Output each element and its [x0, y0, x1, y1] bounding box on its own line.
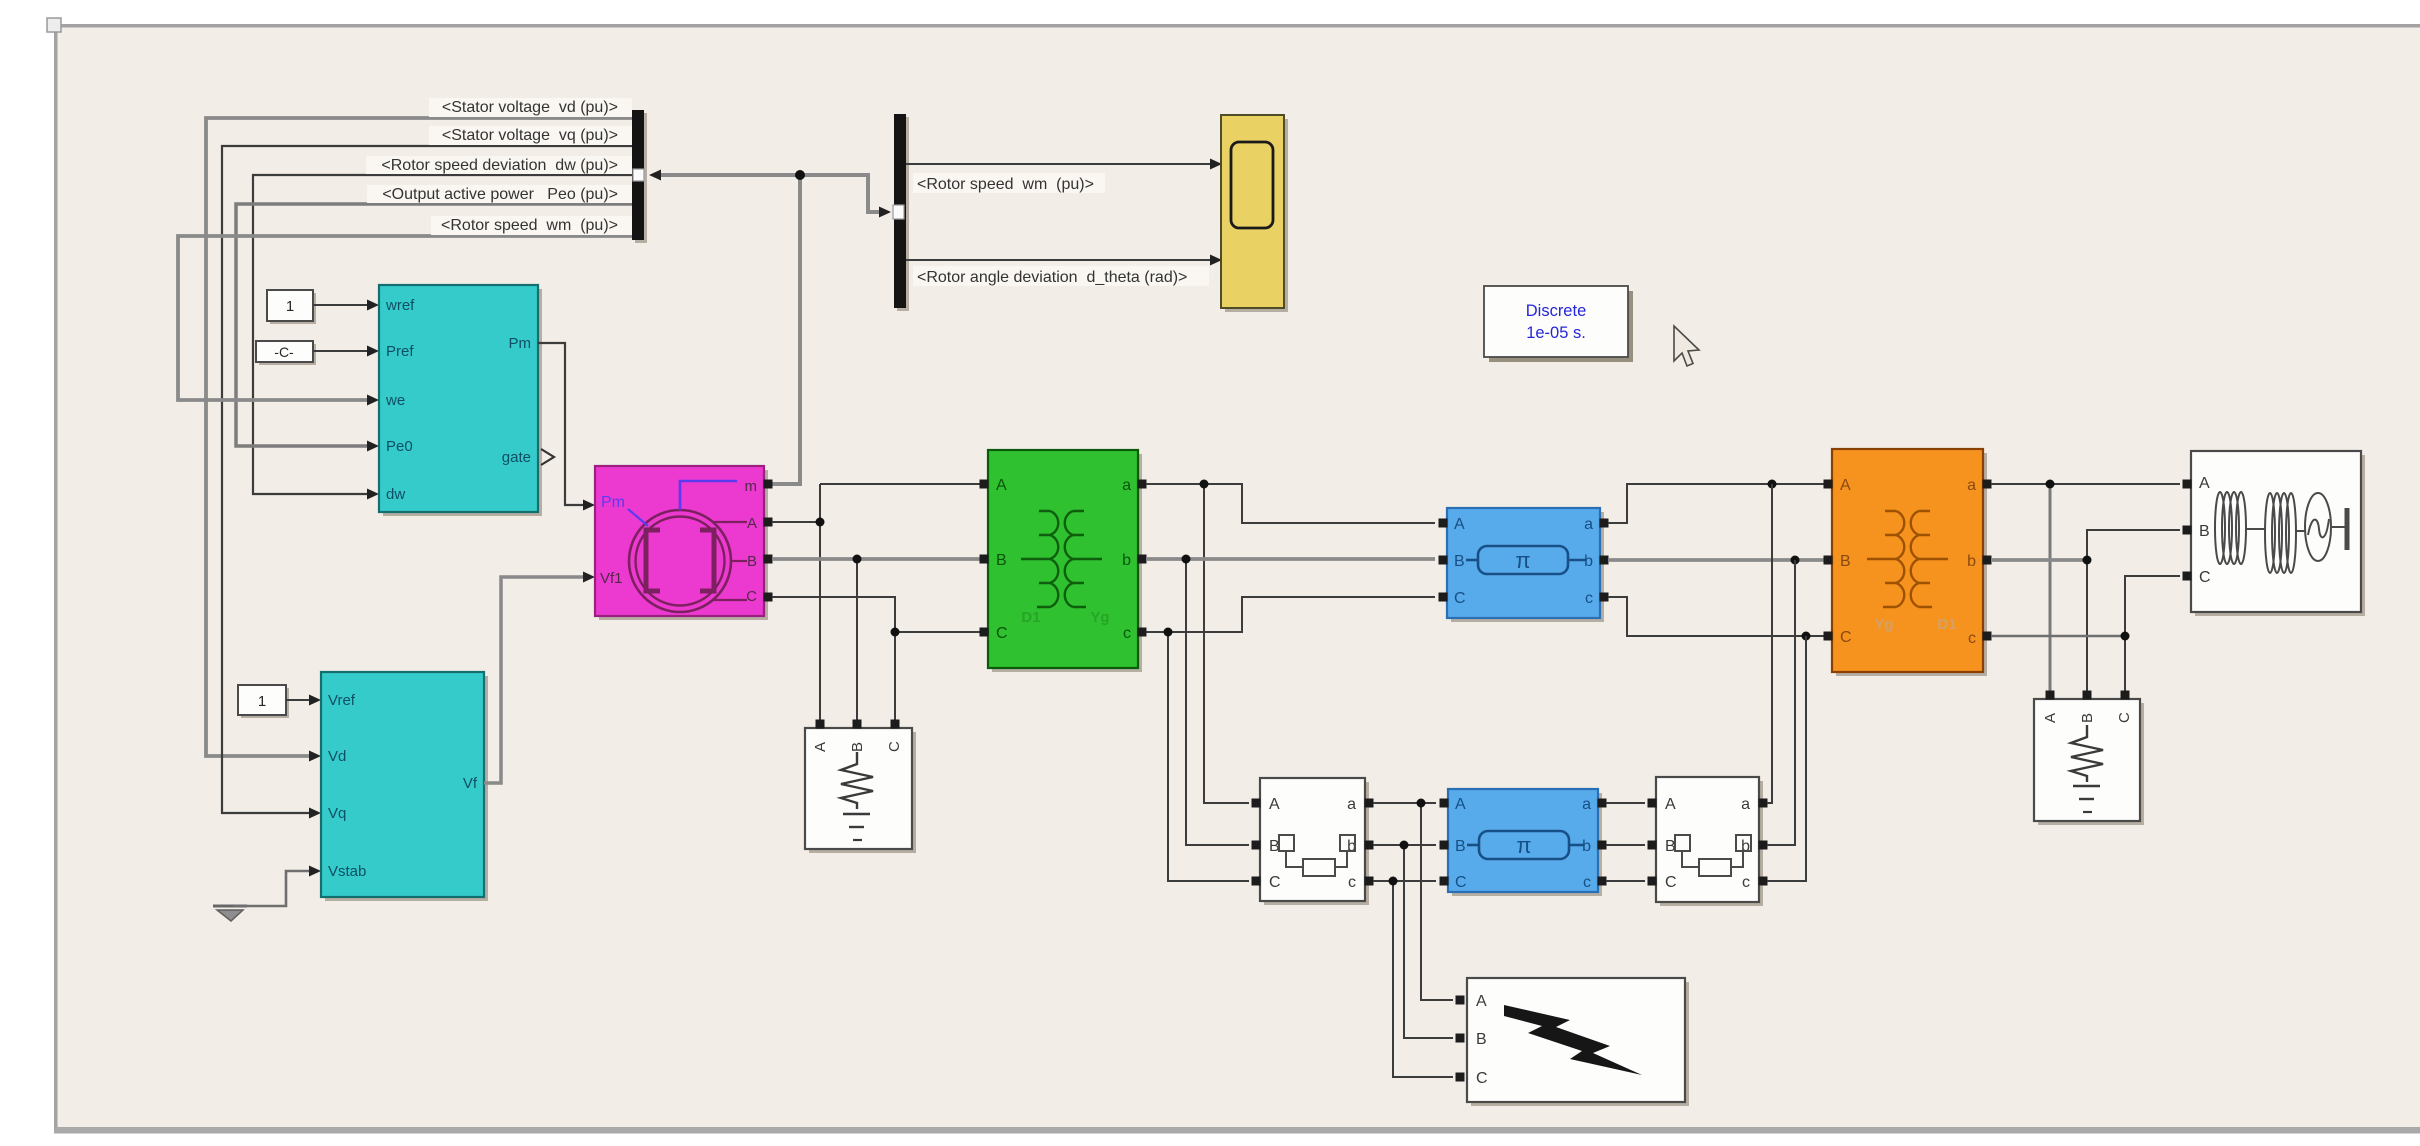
steam turbine and governor block [379, 285, 542, 516]
scope block [1221, 115, 1288, 312]
svg-text:π: π [1515, 548, 1530, 573]
three-phase fault block [1467, 978, 1689, 1106]
svg-text:C: C [1665, 874, 1677, 891]
three-phase RLC load 1 [805, 728, 916, 853]
svg-text:C: C [1454, 590, 1466, 607]
svg-text:c: c [1968, 630, 1976, 647]
wire: breaker 2 a up to transformer 2 A [1767, 484, 1772, 803]
junction: phase C rejoin [1802, 632, 1811, 641]
svg-text:Vq: Vq [328, 805, 346, 822]
svg-text:a: a [1347, 796, 1356, 813]
label: output active power Peo [367, 185, 632, 203]
svg-text:C: C [1455, 874, 1467, 891]
svg-text:A: A [1476, 993, 1487, 1010]
label: stator voltage vq [429, 126, 632, 145]
svg-text:Vf1: Vf1 [600, 570, 623, 587]
svg-text:C: C [886, 741, 903, 752]
source port squares [2183, 480, 2192, 581]
junction: phase B rejoin [1791, 556, 1800, 565]
three-phase PI section line 2 (blue) [1448, 789, 1602, 896]
svg-text:<Rotor speed deviation dw (pu: <Rotor speed deviation dw (pu)> [381, 157, 618, 174]
wire: machine phase B to transformer 1 [772, 559, 980, 724]
svg-text:c: c [1123, 625, 1131, 642]
svg-text:Vd: Vd [328, 748, 346, 765]
svg-text:C: C [996, 625, 1008, 642]
powergui Discrete block [1484, 286, 1633, 362]
svg-text:B: B [2079, 713, 2096, 723]
breaker 1 port squares [1252, 799, 1374, 886]
svg-text:dw: dw [386, 486, 405, 503]
svg-text:A: A [2042, 713, 2059, 723]
fault block port squares [1456, 996, 1465, 1082]
three-phase RLC load 2 [2034, 699, 2144, 825]
svg-text:<Output active power Peo (pu: <Output active power Peo (pu)> [382, 186, 618, 203]
svg-text:A: A [2199, 475, 2210, 492]
junction: load 2 tap A [2046, 480, 2055, 489]
svg-text:b: b [1122, 552, 1131, 569]
wire: transformer 2 b to source B and load 2 B [1991, 530, 2180, 691]
svg-text:B: B [2199, 523, 2210, 540]
svg-text:c: c [1348, 874, 1356, 891]
wire: breaker 1 b to PI line 2 B and fault B [1373, 845, 1453, 1038]
svg-text:b: b [1967, 553, 1976, 570]
wire: PI line 2 a to breaker 2 A [1606, 802, 1645, 804]
junction: phase a tap [1200, 480, 1209, 489]
wire: transformer 1 a to PI line 1 A and breaker 1 A [1146, 484, 1435, 803]
breaker 2 port squares [1648, 799, 1768, 886]
mouse cursor [1674, 326, 1699, 366]
wire: constant 1 to governor wref [313, 300, 379, 311]
wire: PI line 1 a to transformer 2 A [1608, 484, 1824, 523]
wire: breaker 2 c up to transformer 2 C [1767, 636, 1806, 881]
wire: constant -C- to governor Pref [313, 346, 379, 357]
wire: ground to exciter Vstab [233, 866, 321, 907]
svg-text:Vf: Vf [463, 775, 478, 792]
wire: breaker 2 b up to transformer 2 B [1767, 560, 1795, 845]
wire: exciter Vf to machine Vf1 [484, 572, 595, 784]
svg-text:A: A [747, 515, 757, 532]
svg-text:1: 1 [258, 693, 266, 710]
svg-text:c: c [1583, 874, 1591, 891]
three-phase transformer 1 (green, D1/Yg) [988, 450, 1142, 672]
svg-text:B: B [1455, 838, 1466, 855]
svg-text:π: π [1516, 833, 1531, 858]
svg-text:a: a [1122, 477, 1131, 494]
svg-text:Vstab: Vstab [328, 863, 366, 880]
svg-text:C: C [1269, 874, 1281, 891]
svg-text:Yg: Yg [1090, 609, 1109, 626]
svg-text:A: A [996, 477, 1007, 494]
label: rotor speed wm scope input [913, 173, 1105, 193]
svg-text:b: b [1582, 838, 1591, 855]
svg-text:1e-05 s.: 1e-05 s. [1526, 324, 1586, 342]
svg-text:A: A [812, 742, 829, 752]
svg-text:a: a [1584, 516, 1593, 533]
PI line 1 port squares [1439, 519, 1609, 602]
svg-text:A: A [1454, 516, 1465, 533]
svg-text:a: a [1967, 477, 1976, 494]
junction: fault tap C [1389, 877, 1398, 886]
svg-text:C: C [746, 588, 757, 605]
transformer 2 port squares [1824, 480, 1992, 641]
junction: phase B tap [853, 555, 862, 564]
wire: rotor speed wm to scope [906, 159, 1222, 170]
svg-text:Vref: Vref [328, 692, 356, 709]
wire: rotor angle deviation d_theta to scope [906, 255, 1222, 266]
junction: load 2 tap B [2083, 556, 2092, 565]
junction: fault tap B [1400, 841, 1409, 850]
governor gate unconnected output port [541, 449, 554, 465]
wire: machine phase A to transformer 1 and load 1 [772, 484, 980, 724]
three-phase breaker 2 [1656, 777, 1763, 906]
bus selector 2 [893, 114, 909, 311]
wire: output active power Peo signal (bus selector to governor Pe0) [236, 204, 633, 452]
svg-text:B: B [1476, 1031, 1487, 1048]
svg-text:A: A [1455, 796, 1466, 813]
svg-text:Pm: Pm [601, 494, 625, 511]
wire: rotor speed deviation dw signal (bus selector to governor dw) [253, 175, 633, 500]
svg-text:b: b [1584, 553, 1593, 570]
junction: fault tap A [1417, 799, 1426, 808]
label: rotor speed deviation dw [366, 156, 632, 174]
svg-text:B: B [1454, 553, 1465, 570]
svg-text:B: B [996, 552, 1007, 569]
svg-text:D1: D1 [1937, 616, 1956, 633]
PI line 2 port squares [1440, 799, 1607, 886]
svg-text:c: c [1585, 590, 1593, 607]
svg-text:B: B [849, 742, 866, 752]
three-phase PI section line 1 (blue) [1447, 508, 1604, 622]
ground symbol [213, 906, 247, 921]
load 1 port squares [816, 720, 900, 729]
svg-text:<Rotor angle deviation d_thet: <Rotor angle deviation d_theta (rad)> [917, 269, 1187, 286]
excitation system block [321, 672, 488, 901]
junction: phase C tap [891, 628, 900, 637]
svg-text:<Rotor speed wm (pu)>: <Rotor speed wm (pu)> [917, 176, 1094, 193]
wire: PI line 1 c to transformer 2 C [1608, 597, 1824, 636]
constant block 1 (wref) [267, 290, 316, 324]
junction: phase A rejoin [1768, 480, 1777, 489]
junction: phase c tap [1164, 628, 1173, 637]
wire: transformer 1 b to PI line 1 B and breaker 1 B [1146, 559, 1435, 845]
svg-text:c: c [1742, 874, 1750, 891]
wire: breaker 1 a to PI line 2 A and fault A [1373, 803, 1453, 1000]
svg-text:C: C [2116, 712, 2133, 723]
wire: governor Pm to machine Pm [538, 343, 595, 511]
wire: constant 1 to exciter Vref [286, 695, 321, 706]
svg-text:we: we [385, 392, 405, 409]
constant block 1 (Vref) [238, 685, 289, 718]
svg-text:Yg: Yg [1874, 616, 1893, 633]
svg-text:Pref: Pref [386, 343, 414, 360]
svg-text:gate: gate [502, 449, 531, 466]
svg-text:Pm: Pm [509, 335, 532, 352]
svg-text:C: C [1476, 1070, 1488, 1087]
svg-text:A: A [1665, 796, 1676, 813]
label: rotor speed wm [431, 216, 632, 235]
constant block -C- (Pref) [256, 341, 316, 365]
svg-text:<Rotor speed wm (pu)>: <Rotor speed wm (pu)> [441, 217, 618, 234]
synchronous machine block [595, 466, 768, 620]
wire: machine measurement bus m [649, 170, 891, 485]
wire: machine phase C to transformer 1 and load 1 [772, 597, 980, 724]
load 2 port squares [2046, 691, 2130, 700]
junction: bus split [795, 170, 805, 180]
wire: stator voltage vq signal (bus selector to exciter Vq) [222, 146, 633, 819]
label: stator voltage vd [429, 98, 632, 117]
svg-text:<Stator voltage vd (pu)>: <Stator voltage vd (pu)> [442, 99, 618, 116]
label: rotor angle deviation d_theta scope input [913, 266, 1209, 286]
svg-text:Discrete: Discrete [1526, 302, 1587, 320]
bus selector 1 [632, 110, 647, 243]
svg-text:D1: D1 [1021, 609, 1040, 626]
junction: phase b tap [1182, 555, 1191, 564]
svg-text:B: B [1840, 553, 1851, 570]
svg-text:C: C [1840, 629, 1852, 646]
svg-text:Pe0: Pe0 [386, 438, 413, 455]
svg-text:m: m [745, 478, 758, 495]
svg-text:<Stator voltage vq (pu)>: <Stator voltage vq (pu)> [442, 127, 618, 144]
wire: PI line 2 c to breaker 2 C [1606, 880, 1645, 882]
three-phase source block [2191, 451, 2365, 616]
svg-text:B: B [747, 553, 757, 570]
transformer 1 port squares [980, 480, 1147, 637]
wire: PI line 2 b to breaker 2 B [1606, 844, 1645, 846]
wire: breaker 1 c to PI line 2 C and fault C [1373, 881, 1453, 1077]
svg-text:1: 1 [286, 298, 294, 315]
junction: phase A tap [816, 518, 825, 527]
wire: transformer 2 c to source C and load 2 C [1991, 576, 2180, 691]
svg-text:C: C [2199, 569, 2211, 586]
svg-text:wref: wref [385, 297, 415, 314]
svg-text:a: a [1582, 796, 1591, 813]
wire: transformer 2 a to source A and load 2 A [1991, 484, 2180, 691]
wire: PI line 1 b to transformer 2 B [1608, 558, 1824, 562]
svg-text:A: A [1840, 477, 1851, 494]
wire: transformer 1 c to PI line 1 C and breaker 1 C [1146, 597, 1435, 881]
three-phase transformer 2 (orange, Yg/D1) [1832, 449, 1987, 676]
machine output port squares [764, 480, 773, 602]
wire: stator voltage vd signal (bus selector to exciter Vd) [206, 118, 633, 762]
svg-text:A: A [1269, 796, 1280, 813]
three-phase breaker 1 [1260, 778, 1369, 905]
junction: load 2 tap C [2121, 632, 2130, 641]
wire: rotor speed wm signal (bus selector to governor we) [178, 236, 633, 406]
svg-text:a: a [1741, 796, 1750, 813]
svg-text:-C-: -C- [274, 344, 294, 360]
